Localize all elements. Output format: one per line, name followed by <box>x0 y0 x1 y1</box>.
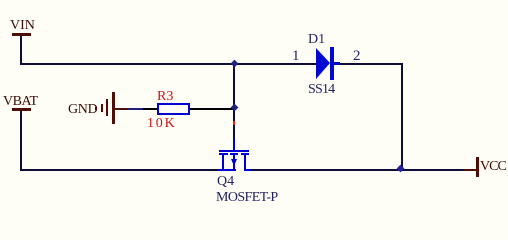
transistor Q4 bulk arrow <box>228 157 240 169</box>
transistor Q4 designator <box>217 175 234 189</box>
transistor Q4 channel bar middle <box>230 153 238 155</box>
diode D1 pin 2 number <box>353 49 361 63</box>
wire VBAT vertical <box>20 111 22 171</box>
power port GND label <box>68 103 97 117</box>
transistor Q4 source-bulk bottom lead <box>217 169 236 171</box>
resistor R3 right pin <box>190 108 234 110</box>
port VCC pin <box>463 169 477 171</box>
wire top horizontal VIN to D1 <box>20 63 316 65</box>
port VIN bar <box>12 33 31 36</box>
transistor Q4 type label <box>216 191 278 205</box>
transistor Q4 source drop <box>222 155 224 171</box>
wire red segment <box>233 121 235 125</box>
diode D1 body <box>314 45 344 81</box>
junction dot right <box>397 165 405 173</box>
port VBAT <box>3 95 38 109</box>
transistor Q4 bulk drop <box>233 155 235 171</box>
port VBAT bar <box>12 108 31 111</box>
power port GND pin <box>114 108 127 110</box>
wire mid vertical upper <box>233 63 235 121</box>
wire top horizontal D1 to corner <box>340 63 403 65</box>
wire mid vertical lower <box>233 125 235 139</box>
junction dot top <box>231 60 239 68</box>
resistor R3 value 10K <box>147 117 177 131</box>
junction dot mid <box>231 104 239 112</box>
diode D1 value SS14 <box>308 83 334 97</box>
wire GND to R3 <box>127 108 143 110</box>
transistor Q4 drain drop <box>244 155 246 171</box>
resistor R3 body <box>157 103 190 115</box>
wire bottom left <box>20 169 218 171</box>
diode D1 pin 1 number <box>292 49 300 63</box>
wire right vertical <box>401 63 403 171</box>
port VIN <box>10 19 35 33</box>
transistor Q4 drain bottom lead <box>244 169 251 171</box>
diode D1 label <box>308 33 325 47</box>
port VCC label <box>480 160 506 174</box>
port VCC bar <box>476 157 479 177</box>
transistor Q4 gate pin <box>233 139 235 151</box>
resistor R3 left pin <box>143 108 157 110</box>
transistor Q4 channel bar left <box>219 153 228 155</box>
wire bottom right <box>251 169 463 171</box>
power port GND symbol <box>95 107 97 110</box>
wire VIN vertical <box>20 36 22 65</box>
resistor R3 label <box>157 90 173 104</box>
transistor Q4 channel bar right <box>241 153 249 155</box>
transistor Q4 gate bar <box>219 150 249 152</box>
